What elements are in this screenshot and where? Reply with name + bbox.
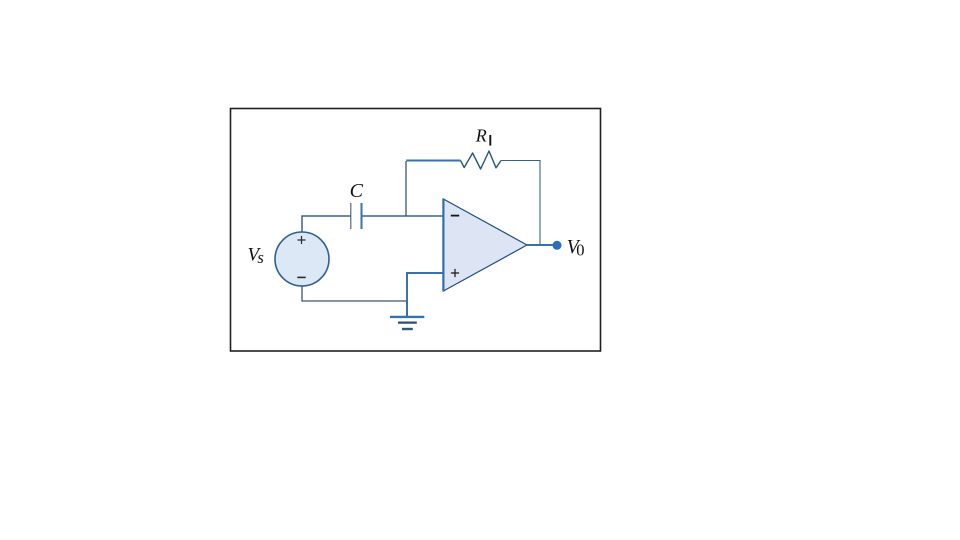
svg-text:R: R xyxy=(475,126,487,146)
svg-text:s: s xyxy=(257,248,263,267)
svg-text:C: C xyxy=(350,180,364,202)
svg-text:0: 0 xyxy=(576,241,584,260)
